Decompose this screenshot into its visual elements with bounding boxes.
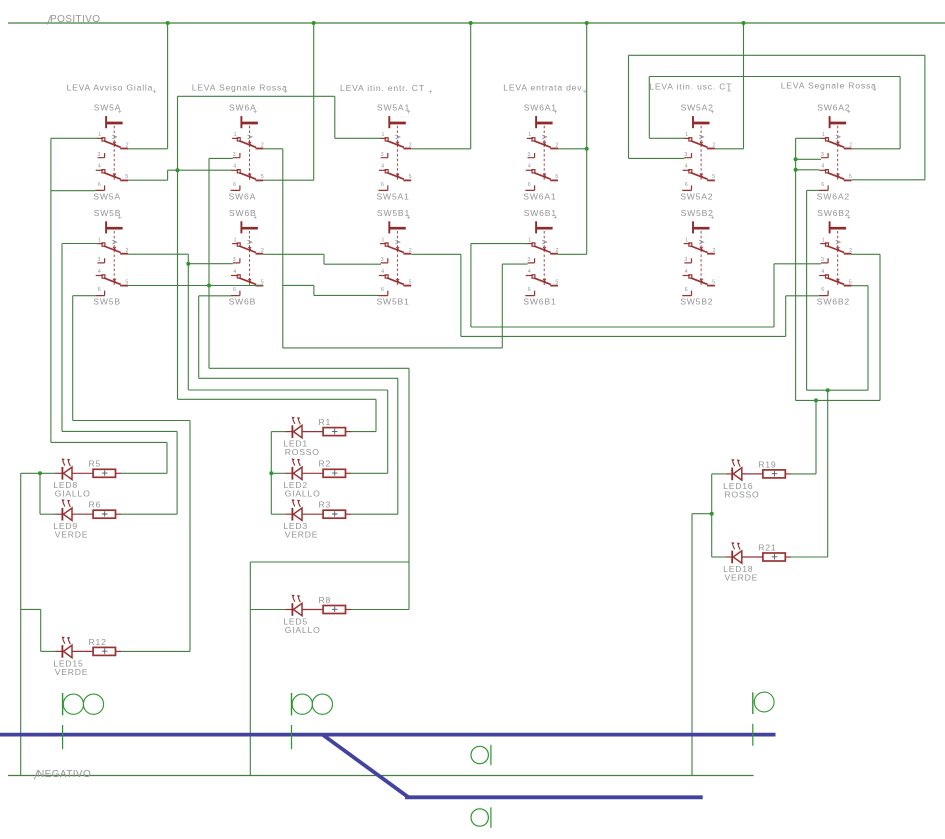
wire	[351, 513, 398, 515]
wire	[51, 441, 167, 443]
svg-text:LEVA entrata dev.: LEVA entrata dev.	[503, 83, 585, 93]
wire	[271, 513, 285, 515]
net label NEGATIVO	[34, 769, 91, 780]
wire	[924, 55, 926, 180]
wire	[263, 253, 324, 255]
junction	[794, 168, 798, 172]
wire	[408, 368, 410, 609]
wire	[899, 77, 901, 149]
switch SW5B	[93, 208, 128, 307]
wire	[796, 137, 822, 139]
svg-text:+: +	[873, 87, 877, 94]
wire	[188, 389, 387, 391]
svg-text:SW5B: SW5B	[93, 297, 121, 307]
switch SW6A	[229, 103, 264, 202]
wire	[176, 431, 178, 514]
switch SW6B	[229, 208, 264, 307]
wire	[314, 294, 379, 296]
wire	[208, 158, 210, 368]
svg-text:+: +	[429, 89, 433, 96]
svg-text:VERDE: VERDE	[55, 667, 89, 677]
wire	[283, 284, 314, 286]
wire	[879, 254, 881, 400]
wire	[648, 77, 650, 139]
wire	[806, 190, 808, 390]
svg-text:VERDE: VERDE	[55, 530, 89, 540]
svg-text:+: +	[253, 214, 257, 221]
wire	[62, 243, 98, 245]
wire	[189, 421, 191, 652]
signal symbol (one head) right	[753, 692, 774, 746]
wire	[73, 295, 96, 297]
wire	[471, 326, 774, 328]
LED LED15 (VERDE) with resistor R12	[53, 637, 121, 677]
wire	[692, 513, 712, 515]
wire	[743, 23, 745, 149]
svg-text:SW6B1: SW6B1	[523, 297, 556, 307]
node label LEVA Segnale Rossa	[781, 81, 877, 94]
wire	[198, 296, 200, 379]
switch SW6A1	[523, 103, 558, 202]
wire	[411, 148, 471, 150]
svg-text:SW6B1: SW6B1	[524, 208, 557, 218]
wire	[558, 148, 587, 150]
wire	[282, 149, 284, 348]
LED LED3 (VERDE) with resistor R3	[283, 499, 351, 539]
svg-text:LEVA itin. usc. CT: LEVA itin. usc. CT	[649, 81, 732, 91]
wire	[209, 367, 409, 369]
wire	[796, 169, 820, 171]
wire	[128, 179, 168, 181]
wire	[20, 473, 22, 775]
svg-text:+: +	[118, 214, 122, 221]
svg-text:GIALLO: GIALLO	[285, 489, 321, 499]
svg-text:+: +	[727, 87, 731, 94]
svg-text:SW6A: SW6A	[229, 191, 257, 201]
wire	[502, 263, 527, 265]
wire	[335, 137, 382, 139]
svg-text:+: +	[407, 214, 411, 221]
wire	[41, 650, 56, 652]
wire	[411, 253, 461, 255]
junction	[469, 21, 473, 25]
wire	[168, 169, 231, 171]
svg-text:+: +	[847, 109, 851, 116]
svg-text:+: +	[553, 214, 557, 221]
wire	[711, 474, 713, 557]
wire	[712, 556, 726, 558]
wire	[21, 608, 41, 610]
svg-text:+: +	[253, 109, 257, 116]
svg-text:+: +	[407, 109, 411, 116]
wire	[791, 556, 828, 558]
net label POSITIVO	[47, 14, 100, 25]
wire	[263, 179, 313, 181]
junction	[166, 21, 170, 25]
wire	[178, 398, 377, 400]
wire	[649, 137, 685, 139]
wire	[807, 189, 819, 191]
svg-text:SW6A2: SW6A2	[817, 191, 850, 201]
svg-text:R12: R12	[89, 637, 107, 647]
svg-text:SW5B1: SW5B1	[377, 297, 410, 307]
junction	[207, 284, 211, 288]
signal symbol (two heads) middle	[292, 693, 333, 749]
wire	[270, 432, 272, 515]
wire	[815, 400, 817, 474]
svg-text:SW6A2: SW6A2	[817, 103, 850, 113]
svg-text:SW6A1: SW6A1	[524, 103, 557, 113]
point label a upper	[471, 745, 491, 765]
svg-text:SW5A1: SW5A1	[377, 103, 410, 113]
svg-text:SW6B2: SW6B2	[817, 297, 850, 307]
wire	[629, 54, 925, 56]
LED LED9 (VERDE) with resistor R6	[53, 499, 121, 539]
svg-text:SW6B: SW6B	[229, 297, 257, 307]
switch SW5A	[93, 103, 128, 202]
wire	[128, 148, 168, 150]
junction	[585, 21, 589, 25]
wire	[249, 562, 251, 776]
svg-text:SW5B1: SW5B1	[377, 208, 410, 218]
junction	[312, 21, 316, 25]
svg-text:VERDE: VERDE	[285, 530, 319, 540]
junction	[186, 262, 190, 266]
node label LEVA itin. entr. CT	[340, 83, 433, 96]
wire	[791, 473, 816, 475]
wire	[271, 431, 285, 433]
wire	[121, 650, 190, 652]
wire	[166, 442, 168, 473]
wire	[167, 23, 169, 149]
wire	[852, 253, 881, 255]
LED LED16 (ROSSO) with resistor R19	[723, 459, 791, 499]
switch SW6A2	[817, 103, 852, 202]
wire	[283, 347, 503, 349]
svg-text:SW5A: SW5A	[93, 191, 121, 201]
wire	[827, 390, 829, 557]
wire	[188, 263, 233, 265]
wire	[796, 158, 821, 160]
wire	[50, 138, 52, 442]
svg-text:GIALLO: GIALLO	[55, 489, 91, 499]
wire	[852, 285, 869, 287]
junction	[742, 21, 746, 25]
wire	[470, 23, 472, 149]
svg-text:LEVA itin. entr. CT: LEVA itin. entr. CT	[340, 83, 425, 93]
junction	[585, 147, 589, 151]
wire	[558, 253, 587, 255]
node label LEVA Avviso Gialla	[67, 82, 157, 95]
wire	[51, 190, 95, 192]
wire	[128, 253, 189, 255]
svg-text:POSITIVO: POSITIVO	[50, 14, 100, 25]
switch SW5A2	[680, 103, 715, 202]
LED LED8 (GIALLO) with resistor R5	[53, 458, 121, 498]
wire	[323, 254, 325, 264]
svg-text:SW6B2: SW6B2	[817, 208, 850, 218]
wire	[178, 95, 335, 97]
wire	[73, 420, 190, 422]
LED LED18 (VERDE) with resistor R21	[723, 542, 791, 582]
svg-text:ROSSO: ROSSO	[725, 489, 760, 499]
wire	[852, 179, 925, 181]
wire	[40, 609, 42, 651]
wire	[313, 285, 315, 295]
svg-text:+: +	[710, 214, 714, 221]
junction	[176, 168, 180, 172]
svg-text:GIALLO: GIALLO	[285, 625, 321, 635]
wire	[51, 137, 98, 139]
svg-text:SW5A1: SW5A1	[377, 191, 410, 201]
wire	[795, 138, 797, 400]
junction	[794, 157, 798, 161]
wire	[375, 399, 377, 431]
wire	[250, 561, 409, 563]
wire	[852, 148, 901, 150]
wire	[796, 399, 880, 401]
power rail NEGATIVO	[8, 775, 754, 777]
track branch diagonal	[323, 735, 409, 798]
svg-text:R1: R1	[319, 417, 332, 427]
svg-text:SW5B2: SW5B2	[680, 297, 713, 307]
svg-text:SW5B2: SW5B2	[681, 208, 714, 218]
signal symbol (two heads) left	[63, 693, 104, 749]
wire	[177, 96, 179, 399]
wire	[649, 76, 900, 78]
track branch line	[405, 795, 703, 799]
LED LED5 (GIALLO) with resistor R8	[283, 595, 351, 635]
point label a lower	[471, 807, 491, 827]
power rail POSITIVO	[8, 22, 945, 24]
wire	[121, 472, 167, 474]
junction	[814, 398, 818, 402]
wire	[807, 389, 868, 391]
wire	[128, 285, 263, 287]
svg-text:ROSSO: ROSSO	[285, 447, 320, 457]
svg-text:R8: R8	[319, 595, 332, 605]
svg-text:R19: R19	[758, 459, 776, 469]
wire	[40, 513, 56, 515]
wire	[773, 264, 775, 327]
wire	[691, 514, 693, 776]
junction	[38, 471, 42, 475]
wire	[351, 609, 409, 611]
svg-text:R2: R2	[319, 459, 332, 469]
switch SW5B2	[680, 208, 715, 307]
svg-text:R6: R6	[89, 500, 102, 510]
wire	[167, 170, 169, 180]
junction	[826, 388, 830, 392]
switch SW6B1	[523, 208, 558, 307]
wire	[199, 295, 231, 297]
wire	[72, 296, 74, 421]
LED LED1 (ROSSO) with resistor R1	[283, 417, 351, 457]
wire	[867, 286, 869, 391]
switch SW5B1	[377, 208, 412, 307]
svg-text:LEVA Segnale Rossa: LEVA Segnale Rossa	[192, 82, 288, 92]
wire	[271, 472, 285, 474]
svg-text:+: +	[153, 88, 157, 95]
wire	[187, 254, 189, 390]
node label LEVA Segnale Rossa	[192, 82, 288, 95]
wire	[62, 430, 177, 432]
wire	[61, 244, 63, 432]
wire	[351, 472, 388, 474]
wire	[334, 96, 336, 138]
track main line	[0, 733, 776, 737]
svg-text:LEVA Avviso Gialla: LEVA Avviso Gialla	[67, 82, 154, 92]
wire	[250, 609, 285, 611]
wire	[397, 378, 399, 514]
svg-text:+: +	[553, 109, 557, 116]
junction	[269, 471, 273, 475]
wire	[460, 254, 462, 336]
wire	[121, 513, 177, 515]
svg-text:R21: R21	[758, 542, 776, 552]
svg-text:+: +	[284, 88, 288, 95]
wire	[209, 157, 233, 159]
wire	[313, 23, 315, 180]
wire	[712, 473, 726, 475]
svg-text:+: +	[710, 109, 714, 116]
svg-text:+: +	[847, 214, 851, 221]
svg-text:LEVA Segnale Rossa: LEVA Segnale Rossa	[781, 81, 877, 91]
wire	[387, 390, 389, 473]
wire	[785, 296, 787, 337]
junction	[710, 512, 714, 516]
wire	[351, 431, 376, 433]
switch SW5A1	[377, 103, 412, 202]
wire	[471, 243, 528, 245]
svg-text:SW6A1: SW6A1	[523, 191, 556, 201]
wire	[39, 473, 41, 514]
wire	[199, 377, 398, 379]
wire	[586, 23, 588, 254]
svg-text:VERDE: VERDE	[725, 572, 759, 582]
wire	[715, 148, 744, 150]
wire	[774, 263, 821, 265]
svg-text:+: +	[118, 109, 122, 116]
wire	[470, 244, 472, 327]
svg-text:SW5A2: SW5A2	[681, 103, 714, 113]
wire	[461, 335, 786, 337]
wire	[501, 264, 503, 348]
node label LEVA itin. usc. CT	[649, 81, 732, 94]
svg-text:R5: R5	[89, 459, 102, 469]
wire	[629, 157, 685, 159]
wire	[263, 148, 283, 150]
node label LEVA entrata dev.	[503, 83, 587, 96]
svg-text:R3: R3	[319, 500, 332, 510]
switch SW6B2	[817, 208, 852, 307]
wire	[628, 55, 630, 158]
wire	[21, 472, 56, 474]
LED LED2 (GIALLO) with resistor R2	[283, 458, 351, 498]
svg-text:NEGATIVO: NEGATIVO	[37, 769, 91, 780]
wire	[786, 295, 819, 297]
svg-text:SW5A2: SW5A2	[680, 191, 713, 201]
wire	[324, 263, 381, 265]
